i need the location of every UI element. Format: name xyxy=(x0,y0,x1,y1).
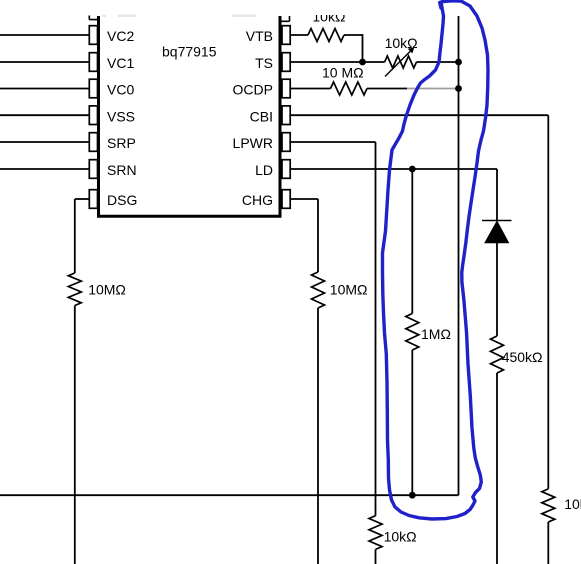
wire CHG horizontal xyxy=(290,198,318,200)
wire OCDP pin to resistor xyxy=(290,88,330,90)
resistor R_LD 450kohm xyxy=(491,336,504,373)
resistor R_CHG 10Mohm xyxy=(312,272,325,308)
resistor R_LPWR 10kohm xyxy=(369,516,382,550)
svg-text:10kΩ: 10kΩ xyxy=(564,496,581,512)
wire LPWR horizontal xyxy=(290,141,375,143)
wire CBI below resistor xyxy=(547,522,549,564)
wire TS pin to thermistor xyxy=(290,61,384,63)
pin VTB box xyxy=(282,26,290,45)
wire 450k to bottom xyxy=(496,373,498,564)
node junction OCDP right xyxy=(455,85,462,92)
resistor R3 1Mohm xyxy=(406,314,419,351)
wire VTB pin to resistor xyxy=(290,34,308,36)
wire CBI vertical xyxy=(547,115,549,489)
node junction TS right xyxy=(455,59,462,66)
node junction VTB-TS xyxy=(359,59,366,66)
wire diode to 450k xyxy=(496,243,498,336)
wire SRP to left edge xyxy=(0,141,89,143)
diode D1 cathode bar xyxy=(482,220,512,222)
wire VC1 to left edge xyxy=(0,61,89,63)
pin SRP box xyxy=(89,133,97,152)
svg-text:bq77915: bq77915 xyxy=(162,44,217,60)
faint remnant dash 2 xyxy=(118,15,136,18)
partial pin (clipped, left top) xyxy=(89,16,97,20)
partial pin (clipped, right top) xyxy=(281,16,290,21)
pin CBI box xyxy=(282,106,290,125)
wire vertical node x458 xyxy=(458,16,460,495)
wire CHG vertical upper xyxy=(317,199,319,272)
wire DSG vertical upper xyxy=(74,199,76,273)
faint remnant dash 3 xyxy=(232,15,256,18)
svg-text:TS: TS xyxy=(255,55,273,71)
wire thermistor to node xyxy=(417,61,459,63)
svg-text:10 MΩ: 10 MΩ xyxy=(322,65,364,81)
pin TS box xyxy=(282,53,290,72)
wire DSG pin stub xyxy=(75,198,90,200)
svg-text:DSG: DSG xyxy=(107,192,137,208)
resistor R_OCDP 10Mohm xyxy=(331,82,368,95)
wire CBI horizontal xyxy=(290,114,548,116)
svg-text:CBI: CBI xyxy=(250,108,273,124)
wire VC2 to left edge xyxy=(0,34,89,36)
svg-text:LPWR: LPWR xyxy=(233,135,273,151)
resistor R_VTB 10kohm xyxy=(308,29,344,42)
svg-text:LD: LD xyxy=(255,162,273,178)
svg-text:SRN: SRN xyxy=(107,162,137,178)
svg-text:SRP: SRP xyxy=(107,135,136,151)
resistor R_CBI 10kohm xyxy=(542,489,555,522)
wire OCDP black segment xyxy=(367,88,407,90)
resistor R_DSG 10Mohm xyxy=(68,273,81,306)
pin SRN box xyxy=(89,160,97,179)
wire VC0 to left edge xyxy=(0,88,89,90)
pin VC0 box xyxy=(89,79,97,98)
op-amp U1: bq77915 IC body (left/right/bottom borders, top clipped) xyxy=(97,16,282,216)
svg-text:10kΩ: 10kΩ xyxy=(385,35,418,51)
pin VC2 box xyxy=(89,26,97,45)
pin OCDP box xyxy=(282,79,290,98)
wire LPWR vertical xyxy=(375,142,377,516)
clip band (white, top) xyxy=(0,0,581,15)
faint remnant dash 1 xyxy=(102,15,106,17)
wire VTB resistor to TS node xyxy=(344,35,363,62)
wire LD horizontal xyxy=(290,168,497,170)
thermistor arrow xyxy=(385,50,412,77)
svg-text:450kΩ: 450kΩ xyxy=(502,349,543,365)
wire SRN to left edge xyxy=(0,168,89,170)
svg-text:10MΩ: 10MΩ xyxy=(88,282,126,298)
pin VSS box xyxy=(89,106,97,125)
wire 1M vertical lower xyxy=(411,350,413,495)
svg-text:VC1: VC1 xyxy=(107,55,134,71)
diode D1 triangle xyxy=(485,221,509,243)
pin DSG box xyxy=(89,190,97,209)
wire OCDP gray segment xyxy=(407,88,459,90)
svg-text:10kΩ: 10kΩ xyxy=(384,528,417,544)
svg-text:10MΩ: 10MΩ xyxy=(330,282,368,298)
svg-text:VC0: VC0 xyxy=(107,82,134,98)
annotation: blue hand-drawn loop xyxy=(383,1,489,519)
wire VSS to left edge xyxy=(0,114,89,116)
node junction LD-1M xyxy=(409,166,416,173)
pin LPWR box xyxy=(282,133,290,152)
svg-text:VTB: VTB xyxy=(246,28,273,44)
thermistor RT1 10kohm zigzag xyxy=(385,56,417,68)
pin LD box xyxy=(282,160,290,179)
svg-text:VSS: VSS xyxy=(107,108,135,124)
pin CHG box xyxy=(282,190,290,209)
wire LD vertical to diode xyxy=(496,169,498,221)
wire LPWR below resistor xyxy=(375,549,377,564)
svg-text:1MΩ: 1MΩ xyxy=(421,326,451,342)
wire 1M vertical upper xyxy=(411,169,413,314)
pin VC1 box xyxy=(89,53,97,72)
node junction bottom xyxy=(409,492,416,499)
svg-text:VC2: VC2 xyxy=(107,28,134,44)
wire DSG vertical lower xyxy=(74,306,76,564)
wire CHG vertical lower xyxy=(317,308,319,564)
wire bottom bus xyxy=(0,494,459,496)
svg-text:OCDP: OCDP xyxy=(233,82,273,98)
svg-text:CHG: CHG xyxy=(242,192,273,208)
